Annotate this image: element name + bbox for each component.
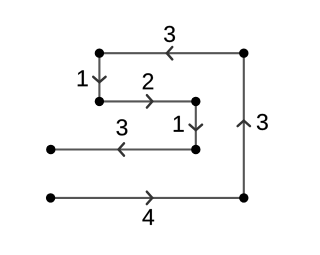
node D (turn of wire C-D to D-E) (191, 97, 200, 106)
value label 2 (wire C-D) (143, 73, 153, 89)
node H (turn of wire G-H to H-B) (239, 193, 248, 202)
arrow on wire D-E (pointing down) (190, 125, 202, 131)
node A (top-left corner) (95, 49, 104, 58)
arrow on wire B-A (pointing left) (167, 47, 173, 59)
node G (start of path) (46, 193, 55, 202)
arrow on wire C-D (pointing right) (147, 95, 153, 107)
value label 1 (wire A-C) (78, 70, 88, 86)
value label 4 (wire G-H) (142, 209, 154, 225)
value label 3 (wire E-F) (116, 119, 127, 135)
wire C-D (middle horizontal segment, length 2) (99, 100, 195, 102)
value label 3 (wire B-A) (164, 26, 175, 42)
node E (turn of wire D-E to E-F) (191, 145, 200, 154)
arrow on wire G-H (pointing right) (147, 192, 153, 204)
wire A-C (left vertical segment, length 1) (98, 53, 100, 101)
arrow on wire A-C (pointing down) (93, 77, 105, 83)
node B (top-right corner) (239, 49, 248, 58)
wire H-B (right vertical segment, length 3) (243, 53, 245, 198)
arrow on wire E-F (pointing left) (119, 143, 125, 155)
node C (turn of wire A-C to C-D) (95, 97, 104, 106)
node F (end of path) (46, 145, 55, 154)
value label 3 (wire H-B) (257, 114, 268, 130)
wire D-E (middle vertical segment, length 1) (195, 101, 197, 149)
wire E-F (lower-middle horizontal segment, length 3) (51, 148, 196, 150)
wire B-A (top segment, length 3) (99, 52, 243, 54)
arrow on wire H-B (pointing up) (238, 121, 250, 127)
wire G-H (bottom segment, length 4) (51, 197, 244, 199)
value label 1 (wire D-E) (174, 116, 184, 132)
